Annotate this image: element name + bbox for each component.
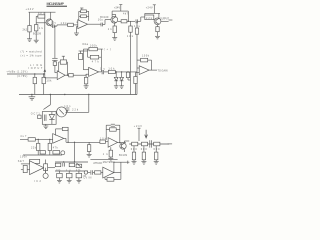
capacitor C1: [52, 24, 54, 28]
wire : VCA branch down: [74, 142, 76, 162]
wire : IC5 below branch: [110, 147, 112, 150]
wire : cluster top run: [55, 161, 88, 163]
ground: [87, 154, 92, 157]
IC4b plus input: [21, 169, 30, 171]
wire : base wire: [36, 22, 46, 24]
wire : IC6 bottom run: [105, 178, 121, 180]
node A junction: [54, 25, 55, 26]
small box: [40, 151, 45, 154]
wire : shunt branch down: [130, 21, 132, 26]
wire : feedback right: [67, 129, 69, 142]
resistor R37: [57, 173, 63, 177]
wire : C5 to R23: [104, 71, 109, 73]
resistor R17: [42, 77, 45, 83]
resistor R45: [142, 142, 148, 146]
wire : R3 top to Q1: [35, 23, 37, 25]
wire : Q3 collector to rail: [158, 13, 160, 18]
resistor R20: [89, 47, 97, 50]
wire : R38 stub: [68, 171, 70, 173]
wire : R17 to ground rail: [43, 84, 45, 95]
wire : IC2b output: [99, 71, 102, 73]
wire : feedback vertical: [45, 160, 47, 174]
wire : shunt 1: [133, 146, 135, 152]
resistor R2: [38, 15, 45, 18]
wire : rail drop right: [88, 95, 90, 113]
svg-text:100k: 100k: [142, 55, 150, 58]
wire : C4 to R15: [54, 60, 56, 62]
wire : top feedback run: [114, 161, 127, 163]
svg-text:600: 600: [154, 148, 161, 151]
svg-text:22k: 22k: [31, 146, 37, 149]
feedback resistor R18: [60, 60, 66, 64]
svg-text:1k: 1k: [103, 153, 109, 156]
node junction: [121, 71, 122, 72]
capacitor C2: [100, 23, 102, 27]
wire : terminal to cap: [88, 172, 91, 174]
svg-text:4k7: 4k7: [38, 12, 45, 15]
resistor R4: [68, 23, 74, 26]
power stub +24V: [153, 5, 155, 14]
feedback resistor R41: [110, 128, 117, 131]
wire : Q4 emitter: [123, 149, 125, 152]
wire : +24V rail stage1: [29, 11, 56, 13]
resistor R46: [154, 142, 160, 146]
svg-text:+24V: +24V: [26, 8, 34, 11]
wire : feedback right: [148, 59, 152, 61]
resistor R38: [66, 173, 72, 177]
resistor R16: [33, 77, 36, 83]
LDR circle: [57, 107, 67, 117]
resistor R51: [107, 178, 114, 182]
wire : input riser to stage1 base: [44, 16, 46, 74]
svg-text:MIC LINE AMP: MIC LINE AMP: [47, 2, 65, 6]
IC1a minus input wire: [77, 21, 78, 23]
transistor Q2: [111, 16, 118, 23]
wire : R49 ground stub: [155, 160, 157, 162]
node junction: [88, 94, 89, 95]
input arrow: [44, 69, 47, 72]
ground: [67, 180, 72, 183]
wire : Q3 output: [161, 20, 169, 22]
resistor R22: [84, 77, 87, 84]
node junction: [43, 73, 44, 74]
capacitor C3: [135, 19, 137, 23]
pot circle: [43, 173, 48, 178]
IC1a plus input wire: [77, 26, 78, 28]
svg-text:10u: 10u: [134, 25, 141, 28]
wire : output run to VCA: [66, 141, 100, 143]
wire : box to ground: [45, 124, 47, 126]
resistor R33: [44, 164, 48, 171]
wire : feedback right vertical: [88, 11, 90, 20]
wire : branch down 1: [37, 139, 39, 143]
svg-text:(*) = matched: (*) = matched: [21, 51, 43, 54]
wire : R21 left link: [88, 56, 91, 58]
resistor R44: [132, 142, 138, 146]
wire : pad branch 1: [34, 74, 36, 77]
ground: [132, 162, 137, 165]
op-amp IC1a: [78, 20, 88, 29]
node junction: [67, 75, 68, 76]
op-amp IC2a: [57, 71, 65, 80]
wire : input line: [7, 73, 45, 75]
IC4b minus input: [21, 163, 30, 165]
transistor Q3: [154, 18, 161, 25]
resistor R47: [132, 152, 135, 160]
node junction: [74, 142, 75, 143]
op-amp IC4a: [53, 134, 64, 144]
svg-text:47k: 47k: [53, 146, 59, 149]
wire : R21b hook: [79, 50, 88, 52]
transistor Q4: [120, 143, 126, 149]
node junction: [38, 139, 39, 140]
svg-text:22k: 22k: [146, 17, 153, 20]
svg-text:2k2: 2k2: [23, 29, 28, 32]
wire : R11 down to ground rail: [130, 32, 132, 94]
resistor R1: [28, 26, 31, 32]
svg-text:1u: 1u: [66, 169, 71, 171]
node junction: [34, 73, 35, 74]
transistor Q1: [46, 19, 53, 26]
resistor R15: [53, 62, 56, 66]
capacitor C4: [52, 57, 57, 59]
resistor R32: [23, 165, 27, 172]
wire : R21 right link: [99, 56, 102, 58]
svg-text:(0.78V): (0.78V): [17, 75, 27, 78]
svg-text:METER: METER: [103, 161, 113, 164]
wire : pot stub: [45, 168, 47, 174]
capacitor C8: [62, 163, 64, 167]
svg-text:100n: 100n: [20, 156, 28, 159]
resistor R49: [155, 152, 158, 160]
ground: [114, 86, 119, 89]
wire : feedback left: [106, 129, 109, 131]
svg-text:TO GAIN: TO GAIN: [158, 69, 168, 72]
wire : IC4a output: [64, 137, 66, 139]
resistor R35: [69, 163, 75, 167]
node junction: [49, 139, 50, 140]
wire : R3 to ground: [35, 31, 37, 40]
wire : IC4b output: [44, 167, 55, 169]
resistor R19: [69, 73, 74, 77]
op-amp IC3a: [139, 66, 149, 75]
wire : input run: [20, 138, 53, 140]
wire : left shunt: [88, 142, 90, 144]
wire : feedback left: [56, 128, 63, 130]
wire : cap to R50: [93, 172, 95, 174]
wire : R28 down: [37, 151, 39, 156]
wire : shunt 2: [143, 146, 145, 152]
wire : branch down 2: [49, 139, 51, 143]
node junction: [67, 142, 68, 143]
resistor R48: [142, 152, 145, 160]
wire : plus input feed: [44, 74, 46, 78]
capacitor C11: [90, 170, 92, 175]
wire : input from IC4a: [99, 141, 101, 144]
op-amp IC4b: [30, 161, 44, 175]
wire : R9 to ground: [114, 33, 116, 38]
ground: [74, 33, 79, 36]
wire : R26 to ground rail: [135, 84, 137, 95]
wire : rectifier run: [115, 71, 137, 73]
wire : bottom run: [23, 154, 62, 156]
vactrol box: [42, 112, 56, 125]
wire : R4 to opamp: [73, 24, 78, 26]
wire : IC5 output: [118, 142, 126, 144]
wire : ground bus: [19, 94, 137, 96]
svg-text:+24V: +24V: [146, 7, 153, 10]
svg-text:10u: 10u: [51, 22, 57, 25]
wire : R39 stub: [78, 171, 80, 173]
svg-text:OUTPUT: OUTPUT: [160, 18, 170, 21]
wire : feedback right: [66, 61, 69, 63]
resistor R21: [90, 55, 98, 59]
wire : top sidechain feedback run: [83, 48, 102, 50]
wire : R37 stub: [58, 171, 60, 173]
wire : feedback left: [59, 61, 61, 63]
output terminal dash: [169, 19, 173, 21]
wire : IC1a output: [88, 23, 101, 25]
wire : stage3 rail: [145, 12, 160, 14]
diode D1: [115, 72, 117, 77]
resistor R13: [135, 28, 138, 34]
svg-text:BC109: BC109: [33, 32, 42, 35]
ground: [154, 162, 159, 165]
svg-text:47k: 47k: [92, 61, 100, 64]
resistor R50: [95, 171, 101, 174]
diode D2: [121, 72, 123, 77]
wire : cluster mid run: [55, 170, 88, 172]
svg-text:INPUT: INPUT: [28, 67, 43, 70]
resistor R40: [100, 140, 106, 143]
feedback resistor R30: [62, 127, 68, 130]
wire : R22 to ground: [85, 84, 87, 86]
node junction: [64, 94, 65, 95]
svg-text:(+) = 1% type: (+) = 1% type: [21, 55, 43, 58]
wire : IC6 output: [114, 172, 121, 174]
resistor R10: [121, 20, 127, 23]
wire : branch down: [127, 71, 129, 73]
ground: [27, 39, 32, 42]
node junction: [116, 71, 117, 72]
ground: [34, 40, 39, 43]
ground: [155, 36, 160, 39]
wire : output run: [129, 143, 169, 145]
terminal circle: [84, 171, 87, 174]
power stub: [138, 128, 140, 141]
wire : pad branch 2: [43, 74, 45, 77]
title underline: [47, 5, 68, 7]
resistor R9: [113, 26, 116, 33]
svg-text:CV IN: CV IN: [83, 177, 91, 180]
svg-text:1u: 1u: [100, 68, 106, 71]
wire : IC6 feedback up: [113, 162, 115, 172]
wire : C1 to R4: [54, 25, 57, 27]
trim pot circle: [61, 151, 65, 155]
wire : Q3 emitter down: [157, 25, 159, 27]
node junction: [127, 71, 128, 72]
wire : rail right drop: [127, 11, 129, 21]
wire : Q1 emitter to cap: [50, 24, 52, 27]
op-amp IC2b: [89, 67, 99, 76]
resistor R27: [28, 138, 35, 141]
resistor R3: [35, 25, 38, 31]
resistor R29: [48, 143, 51, 150]
wire : ground stub: [31, 95, 33, 97]
ground: [108, 158, 113, 161]
node junction: [74, 161, 75, 162]
svg-text:4k7: 4k7: [123, 13, 129, 16]
wire : tap vertical: [54, 26, 56, 58]
plus mark: [126, 161, 129, 164]
pot wiper arrow: [145, 130, 148, 138]
node junction: [128, 21, 129, 22]
node junction: [31, 94, 32, 95]
wire : stage2 rail: [112, 10, 128, 12]
wire : R10 to stage3: [127, 20, 135, 22]
svg-text:10k: 10k: [46, 79, 52, 82]
resistor R23: [108, 70, 115, 73]
wire : bottom run: [90, 159, 117, 161]
ground: [141, 162, 146, 165]
op-amp IC6: [103, 167, 114, 178]
wire : C2 to Q2 base: [103, 24, 106, 26]
svg-text:10k: 10k: [61, 22, 68, 25]
wire : drop from rail: [49, 95, 51, 105]
wire : plus input to ground: [76, 27, 78, 34]
wire : R47 ground stub: [133, 160, 135, 162]
op-amp IC5: [108, 138, 118, 148]
capacitor C6: [66, 107, 70, 109]
capacitor C5: [101, 70, 103, 74]
wire : Q2 emitter down: [114, 23, 116, 26]
wire : R15 down to minus node: [54, 65, 56, 72]
trim resistor R21b: [79, 54, 83, 60]
capacitor C9: [111, 123, 115, 125]
wire : Q2 output: [118, 20, 121, 22]
node junction: [113, 162, 114, 163]
resistor R43: [87, 145, 90, 152]
resistor R39: [76, 173, 82, 177]
resistor R36 with arrow: [76, 164, 82, 168]
resistor R14: [156, 27, 159, 32]
resistor R34: [55, 163, 61, 167]
svg-text:4u7: 4u7: [20, 135, 27, 138]
svg-text:10n: 10n: [64, 105, 71, 108]
svg-text:+4dBu (1.23V): +4dBu (1.23V): [6, 71, 27, 74]
svg-text:ATTACK: ATTACK: [93, 162, 102, 165]
wire : rail left drop: [144, 13, 146, 15]
wire : rail drop at x44.8: [44, 12, 46, 16]
resistor R12: [145, 15, 154, 20]
wire : feedback right: [116, 129, 120, 131]
wire : output up: [120, 162, 122, 172]
node junction: [63, 161, 64, 162]
wire : R50 to IC6: [101, 172, 103, 174]
wire : R43 down: [88, 152, 90, 155]
wire : Q2 collector to rail: [115, 15, 117, 17]
wire : LDR output: [66, 111, 89, 113]
wire : R16 to ground rail: [34, 84, 36, 95]
wire : R14 to ground: [157, 32, 159, 37]
capacitor C10: [149, 140, 151, 147]
feedback resistor R25: [141, 58, 148, 62]
ground: [84, 86, 89, 89]
ground: [43, 126, 48, 129]
ground: [29, 97, 36, 100]
svg-text:10k: 10k: [100, 138, 107, 141]
wire : left input drop: [135, 73, 137, 77]
cap bars inside box: [43, 115, 45, 121]
wire : Q4 collector: [123, 141, 125, 143]
ground: [119, 86, 124, 89]
wire : R42 to ground: [110, 157, 112, 158]
power stub +24V: [120, 5, 122, 12]
small box: [53, 151, 60, 154]
node junction: [50, 94, 51, 95]
wire : feedback left drop: [82, 49, 84, 70]
IC3a plus input: [136, 72, 140, 74]
wire : IC2a output: [65, 74, 69, 76]
wire : IC2b plus branch down: [85, 74, 87, 77]
wire : R24 to ground rail: [127, 78, 129, 80]
ground: [112, 38, 117, 41]
output terminal dash: [168, 143, 173, 145]
svg-text:+24V: +24V: [114, 6, 120, 9]
wire : R19 to IC2b: [73, 74, 86, 76]
opamp power tick: [62, 55, 65, 57]
resistor R42: [109, 150, 112, 157]
svg-text:100k: 100k: [90, 45, 98, 48]
svg-text:+24V: +24V: [134, 125, 142, 128]
IC2b minus input: [83, 69, 88, 71]
feedback resistor R6: [81, 15, 87, 18]
wire : R1 to ground: [29, 32, 31, 39]
opamp power symbol: [81, 8, 83, 10]
wire : R40 to IC5: [105, 141, 108, 143]
feedback resistor R5: [81, 10, 87, 13]
wire : C3 to Q3 base: [138, 20, 141, 22]
IC3a minus input: [137, 67, 139, 69]
wire : diagonal: [43, 105, 50, 110]
wire : IC3a output: [149, 69, 157, 71]
svg-text:BC109: BC109: [119, 154, 128, 157]
resistor R26: [134, 77, 137, 84]
svg-text:BC109: BC109: [100, 16, 109, 19]
small box: [38, 115, 41, 119]
wire : rail left drop: [111, 11, 113, 17]
svg-text:IC1a: IC1a: [82, 43, 89, 46]
wire : R29 down: [49, 151, 51, 156]
resistor R28: [37, 143, 40, 150]
resistor R11: [129, 26, 132, 32]
wire : R2 to base node: [36, 15, 38, 17]
wire : R48 ground stub: [143, 160, 145, 162]
ground: [57, 180, 62, 183]
wire : shunt 3: [155, 146, 157, 152]
ground: [77, 180, 82, 183]
LED D3 inside: [49, 115, 54, 120]
node junction: [119, 142, 120, 143]
svg-text:22k: 22k: [72, 109, 79, 112]
wire : R13 to ground rail: [136, 34, 138, 94]
wire : shunt at 137 down to rail: [136, 21, 138, 28]
wire : rail drop left: [29, 12, 31, 25]
resistor R31: [30, 159, 40, 163]
svg-text:SET: SET: [18, 160, 25, 163]
resistor R24: [126, 72, 129, 77]
wire : feedback left: [137, 59, 141, 61]
